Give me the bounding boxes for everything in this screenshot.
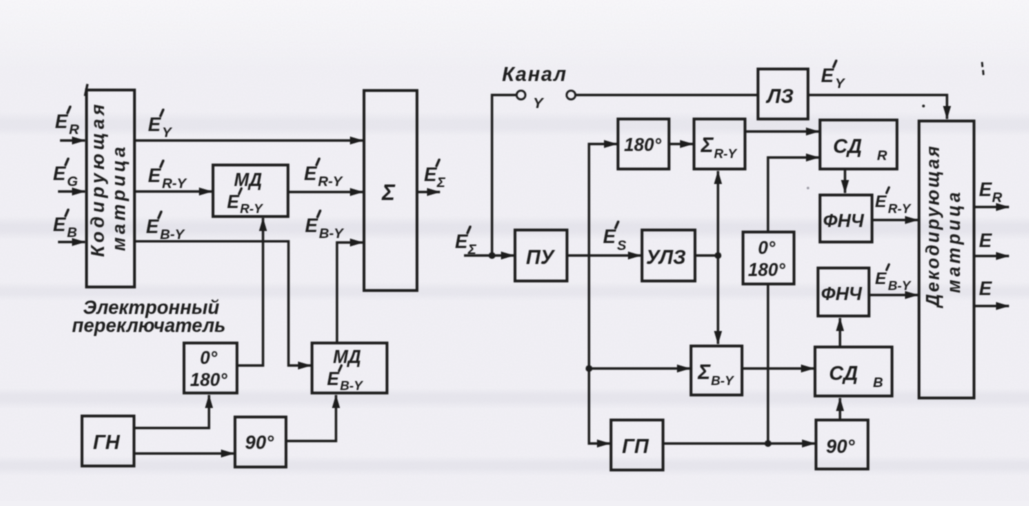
svg-text:E: E <box>603 227 617 248</box>
phase shifter 90 (left) <box>235 417 286 467</box>
svg-text:90°: 90° <box>826 437 855 458</box>
svg-text:E: E <box>148 115 162 136</box>
svg-text:R-Y: R-Y <box>888 201 912 216</box>
adder ΣR-Y <box>694 119 745 169</box>
svg-text:R-Y: R-Y <box>318 173 344 189</box>
svg-text:переключатель: переключатель <box>72 316 226 337</box>
svg-text:E: E <box>979 231 993 252</box>
wire 90L out up into MD2 bottom <box>286 395 336 441</box>
svg-text:ЛЗ: ЛЗ <box>765 86 794 108</box>
svg-text:R: R <box>992 189 1003 205</box>
svg-text:180°: 180° <box>190 370 228 390</box>
wire ГП out into 90R <box>663 442 815 444</box>
svg-text:B-Y: B-Y <box>160 226 186 242</box>
svg-text:матрица: матрица <box>108 144 129 251</box>
sync detector СД B <box>815 347 892 396</box>
svg-text:ФНЧ: ФНЧ <box>823 210 865 231</box>
svg-text:B-Y: B-Y <box>888 278 912 293</box>
node at E'Σ / channel junction <box>489 252 496 259</box>
svg-text:E: E <box>146 217 160 238</box>
svg-text:G: G <box>67 173 78 189</box>
svg-text:E: E <box>53 215 67 236</box>
wire ΣB-Y out into СД B <box>742 367 814 369</box>
wire row2 to MD1 <box>135 190 213 192</box>
svg-text:R-Y: R-Y <box>714 146 738 161</box>
svg-text:ГН: ГН <box>93 432 120 454</box>
svg-text:Декодирующая: Декодирующая <box>923 144 943 309</box>
oscillator ГН <box>82 416 134 466</box>
delayed-path riser up to ΣR-Y and down to ΣB-Y <box>717 171 719 256</box>
low-pass ФНЧ (top) <box>820 195 872 242</box>
svg-text:E: E <box>327 369 340 389</box>
svg-text:E: E <box>875 192 887 211</box>
label E'Σ decoder input <box>455 227 477 257</box>
wire row3 from matrix, down, into MD2 <box>135 241 312 365</box>
svg-text:E: E <box>55 112 69 133</box>
subcarrier oscillator ГП <box>611 420 663 470</box>
svg-text:90°: 90° <box>245 433 274 454</box>
svg-text:Кодирующая: Кодирующая <box>87 101 108 257</box>
svg-text:Канал: Канал <box>502 64 567 86</box>
channel terminal circles + Y <box>517 91 526 100</box>
label E'Y after ЛЗ <box>821 61 846 91</box>
phase switch 0/180 (left) <box>184 343 237 393</box>
svg-text:E: E <box>305 216 319 237</box>
svg-text:E: E <box>455 232 469 253</box>
wire ГН out2 into 90L <box>134 452 234 454</box>
summer box (Σ) <box>364 91 417 291</box>
input E'B label <box>53 210 77 240</box>
svg-text:R: R <box>877 147 888 163</box>
input arrow B <box>58 241 85 243</box>
delay line УЛЗ <box>642 230 695 281</box>
stray mark ¦ <box>982 62 984 75</box>
svg-text:180°: 180° <box>624 135 662 155</box>
svg-text:R: R <box>69 121 80 137</box>
svg-text:Σ: Σ <box>436 174 446 190</box>
svg-text:Σ: Σ <box>381 180 396 205</box>
wire MD1 out to summer <box>288 191 363 193</box>
svg-text:В: В <box>873 374 883 390</box>
direct-path riser (tap to 180 / ΣB-Y / ГП) <box>589 144 617 256</box>
label E'B-Y above MD2 output riser <box>305 211 345 241</box>
svg-text:E: E <box>979 279 993 300</box>
svg-text:0°: 0° <box>758 238 776 258</box>
svg-text:Σ: Σ <box>700 134 714 157</box>
svg-text:R-Y: R-Y <box>240 201 264 216</box>
wire E'Y row to summer <box>135 139 364 141</box>
svg-text:0°: 0° <box>200 348 218 368</box>
wire СД B up into ФНЧ2 <box>839 318 841 347</box>
sync detector СД R <box>820 120 897 169</box>
wire right terminal to ЛЗ <box>575 94 757 96</box>
summer output arrow <box>417 191 440 193</box>
label E'R-Y after MD1 <box>304 159 344 189</box>
delay line ЛЗ <box>758 69 808 119</box>
wire E'Σ into ПУ <box>464 254 514 256</box>
node where 0/180R line meets subcarrier <box>765 440 772 447</box>
wire 0/180L out up into MD1 bottom <box>237 218 263 366</box>
wire ФНЧ2 out into decoder matrix <box>869 294 918 296</box>
branch to ΣB-Y <box>589 367 690 369</box>
wire ФНЧ1 out into decoder matrix <box>872 219 918 221</box>
output E R <box>979 180 1003 205</box>
svg-text:E: E <box>875 269 887 288</box>
svg-text:B: B <box>67 224 77 240</box>
svg-text:R-Y: R-Y <box>162 175 188 191</box>
caption Электронный переключатель <box>72 298 226 337</box>
wire 180 out into ΣR-Y <box>669 143 693 145</box>
svg-text:E: E <box>227 192 240 212</box>
svg-text:E: E <box>979 180 993 201</box>
svg-text:ГП: ГП <box>622 436 649 458</box>
input arrow R <box>60 139 85 141</box>
svg-text:S: S <box>617 237 627 253</box>
svg-text:ПУ: ПУ <box>526 247 555 269</box>
svg-text:СД: СД <box>833 136 862 158</box>
coding matrix box (Кодирующая матрица) <box>87 90 135 287</box>
svg-text:E: E <box>424 165 438 186</box>
svg-text:матрица: матрица <box>944 189 964 293</box>
wire 0/180R bottom down to subcarrier line <box>767 284 769 444</box>
wire СД R down into ФНЧ1 <box>844 169 846 193</box>
input E'G label <box>53 159 78 189</box>
УЛЗ out to node <box>695 254 718 256</box>
wire ГН out1 up into 0/180L <box>134 395 209 428</box>
label E'R-Y at ФНЧ1 output <box>875 187 912 216</box>
wire ЛЗ out to decoder matrix top <box>808 95 947 119</box>
phase switch 0/180 (right) <box>743 232 794 284</box>
phase shifter 90 (right) <box>816 420 868 469</box>
output label E'Σ <box>424 160 446 190</box>
svg-text:B-Y: B-Y <box>319 225 345 241</box>
node at УЛЗ output <box>715 252 722 259</box>
decoding matrix box (Декодирующая матрица) <box>919 121 974 398</box>
label E'Y (row 1) <box>148 110 173 140</box>
label E'B-Y at ФНЧ2 output <box>875 264 912 293</box>
svg-text:МД: МД <box>333 347 361 367</box>
svg-text:E: E <box>53 164 67 185</box>
modulator MD1 (МД E'R-Y) <box>213 165 288 217</box>
phase inverter 180° <box>618 119 669 169</box>
stray dot <box>922 105 925 108</box>
node on riser <box>586 365 593 372</box>
svg-text:ФНЧ: ФНЧ <box>821 283 863 304</box>
label E'R-Y (row 2) <box>148 161 188 191</box>
wire 90R up into СД B <box>839 398 841 420</box>
svg-text:E: E <box>304 164 318 185</box>
svg-text:E: E <box>148 166 162 187</box>
svg-text:B-Y: B-Y <box>711 373 735 388</box>
svg-text:Σ: Σ <box>697 361 711 384</box>
svg-text:180°: 180° <box>748 260 786 280</box>
low-pass ФНЧ (bottom) <box>818 268 869 316</box>
wire MD2 output up and into summer <box>337 243 363 344</box>
modulator MD2 (МД E'B-Y) <box>312 343 387 393</box>
adder ΣB-Y <box>691 346 742 395</box>
amplifier ПУ <box>515 230 567 281</box>
svg-text:E: E <box>821 66 835 87</box>
label E'B-Y (row 3) <box>146 212 186 242</box>
input arrow G <box>58 190 85 192</box>
svg-text:МД: МД <box>234 170 262 190</box>
wire from left terminal down to E'Σ input node <box>492 95 517 256</box>
wire subcarrier up through 0/180R into СД R <box>768 158 819 233</box>
wire ΣR-Y out into СД R <box>745 130 819 132</box>
svg-text:СД: СД <box>829 363 858 385</box>
svg-text:УЛЗ: УЛЗ <box>646 247 686 269</box>
input E'R label <box>55 107 80 137</box>
tick at matrix top-left corner <box>85 84 88 96</box>
svg-text:B-Y: B-Y <box>340 378 364 393</box>
wire ПУ out into УЛЗ <box>567 254 641 256</box>
label E'S <box>603 222 627 253</box>
